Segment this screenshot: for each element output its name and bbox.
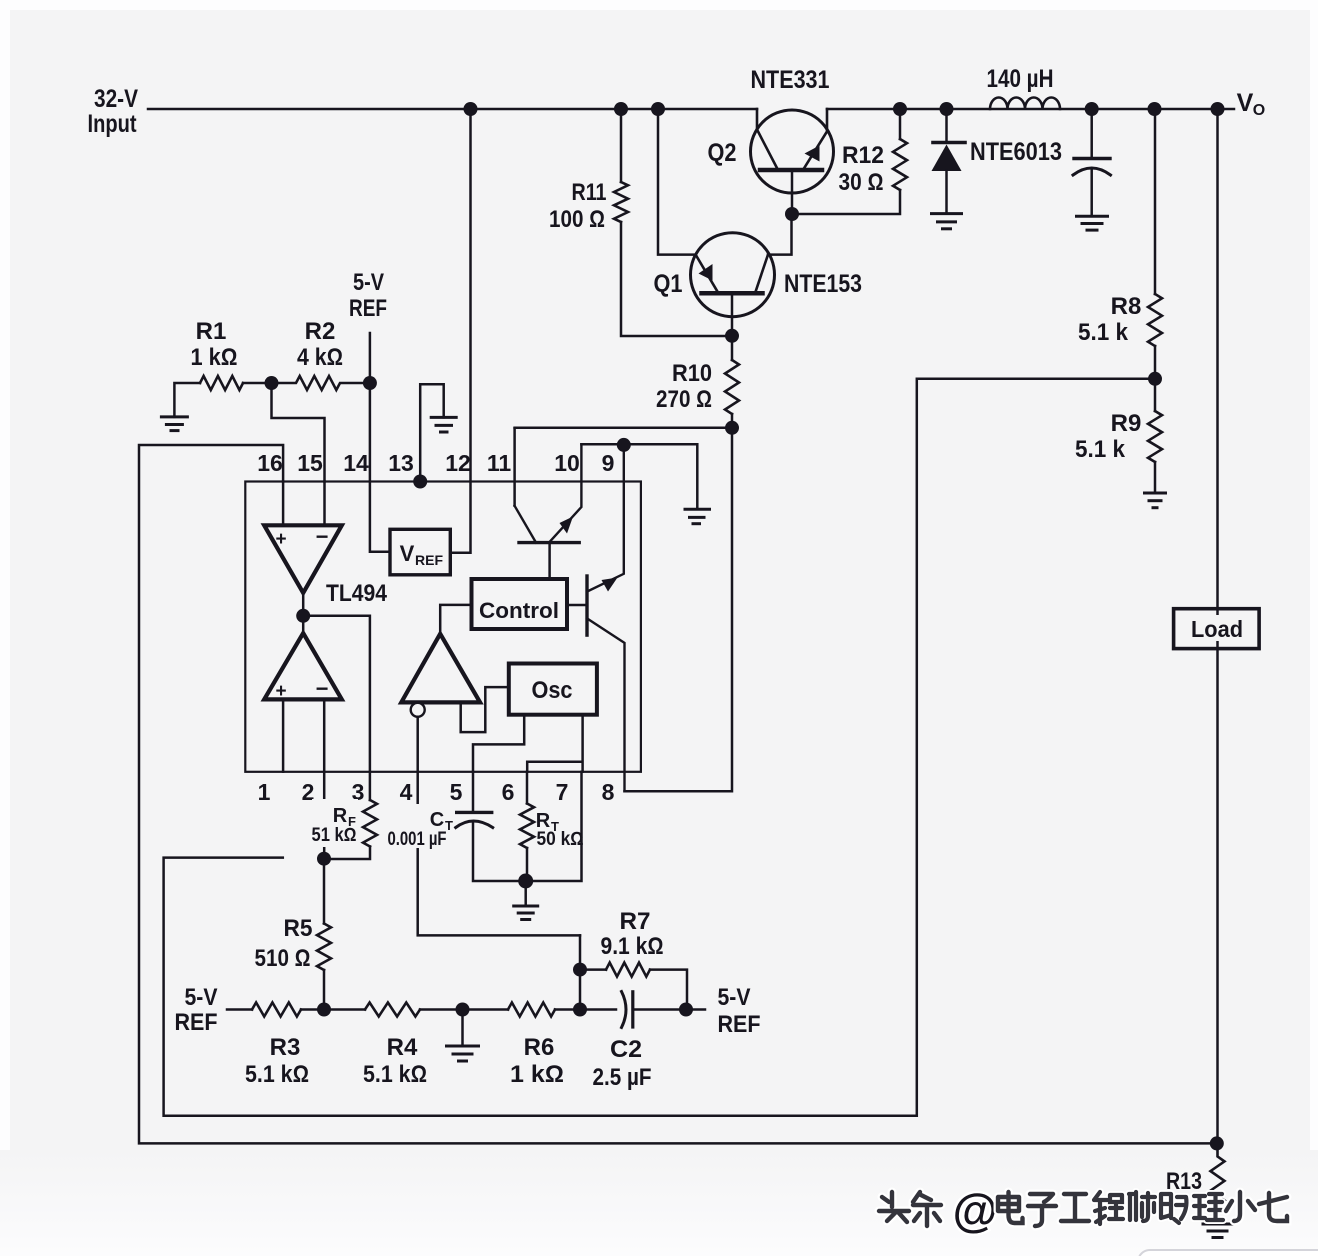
label NTE6013 (970, 138, 1062, 166)
svg-text:5.1 k: 5.1 k (1078, 319, 1129, 346)
pin 12 (445, 450, 471, 476)
node dot R7 left (573, 963, 587, 977)
pin 1 (258, 779, 271, 805)
svg-text:12: 12 (445, 450, 471, 476)
label R4 (363, 1034, 427, 1088)
wire bottom rail from pin 16 left rail to R13 node (139, 445, 1217, 1143)
svg-text:R2: R2 (305, 318, 336, 345)
node dot RT/CT/ground (518, 874, 533, 889)
svg-text:5-V: 5-V (185, 984, 218, 1011)
pin 7 (556, 779, 569, 805)
node dot R3/R4/R5 (317, 1003, 331, 1017)
wire pin 15 to R1/R2 junction (272, 383, 325, 482)
inductor 140 uH (990, 98, 1060, 110)
svg-text:Control: Control (479, 598, 559, 623)
op-amp error amplifier 2 (pins 1/2) (264, 633, 342, 772)
resistor R9 (1148, 379, 1162, 493)
wire Osc to PWM comparator input (461, 687, 509, 732)
pin 14 (343, 450, 369, 476)
op-amp error amplifier 1 (pins 16/15) (264, 482, 342, 593)
wire pin 13 to ground (420, 384, 444, 481)
svg-text:30 Ω: 30 Ω (839, 169, 884, 196)
svg-text:C2: C2 (610, 1036, 642, 1063)
node dot R4/R6/ground (456, 1003, 470, 1017)
pin 2 (302, 779, 315, 805)
svg-text:1: 1 (258, 779, 271, 805)
svg-text:14: 14 (343, 450, 369, 476)
resistor R13 (1211, 1143, 1225, 1224)
transistor internal T1 (pins 11/10) (515, 428, 582, 579)
node dot R8/R9 divider (1148, 372, 1162, 386)
svg-text:5.1 kΩ: 5.1 kΩ (363, 1061, 427, 1088)
resistor R4 (324, 1003, 463, 1017)
node dot Q2 base / R12 / Q1 collector (785, 207, 799, 221)
wire R6/C2 node up to R7 and pin 4 line (579, 935, 582, 1009)
label Q2 (708, 139, 737, 167)
svg-text:R7: R7 (620, 908, 651, 935)
node dot R10 / pin11 / pin8 (725, 421, 739, 435)
svg-text:Q2: Q2 (708, 139, 737, 167)
pin 10 (554, 450, 580, 476)
load box (1174, 609, 1260, 649)
wire 32V input rail (left segment to Q2 collector) (148, 108, 757, 111)
resistor R11 (614, 109, 732, 336)
resistor RT (pin 6) (520, 772, 534, 881)
node dot pin2/RF/R5 (317, 852, 331, 866)
svg-text:270 Ω: 270 Ω (656, 386, 712, 413)
pin 15 (297, 450, 323, 476)
svg-text:510 Ω: 510 Ω (255, 945, 311, 972)
svg-text:V: V (1237, 89, 1254, 117)
svg-text:10: 10 (554, 450, 580, 476)
svg-text:51 kΩ: 51 kΩ (312, 825, 357, 846)
label R13 (1166, 1168, 1202, 1195)
svg-text:REF: REF (349, 295, 387, 322)
block Osc (509, 664, 597, 715)
label Load (1191, 615, 1246, 642)
svg-text:R10: R10 (672, 360, 712, 387)
label comp2 plus (275, 681, 286, 702)
label C2 (593, 1036, 652, 1091)
resistor R1 (174, 376, 271, 417)
svg-text:4 kΩ: 4 kΩ (297, 344, 343, 371)
label R1 (191, 318, 238, 371)
wire 5-V REF to R2/pin14 node (369, 333, 372, 383)
wire Q1 emitter feed from rail (658, 109, 696, 255)
wire Q1 collector to Q2 base node (768, 214, 792, 255)
resistor R5 (317, 859, 331, 1010)
label 140 uH (987, 65, 1054, 93)
label R9 (1075, 410, 1141, 463)
label RF (312, 799, 359, 847)
ground (pin 13) (431, 417, 456, 432)
node dot rail/Q1 feed (651, 102, 665, 116)
op-amp PWM comparator with inverting bubble to pin 4 (401, 634, 580, 936)
label Osc (532, 677, 573, 704)
pin 5 (450, 779, 463, 805)
svg-text:@: @ (953, 1184, 998, 1236)
svg-text:R5: R5 (284, 915, 313, 942)
label CT (388, 804, 454, 850)
svg-text:1 kΩ: 1 kΩ (191, 344, 238, 371)
ground (R9) (1145, 493, 1166, 508)
wire 32V to pin 12 (Vcc) (450, 109, 470, 553)
decorative corner box bottom right (1138, 1250, 1318, 1256)
pin 13 (388, 450, 414, 476)
ground (diode) (932, 214, 962, 229)
label comp2 minus (316, 676, 329, 701)
node 5-V REF (bottom right) (718, 984, 761, 1038)
label R5 (255, 915, 313, 972)
label R7 (601, 908, 664, 960)
IC TL494 box (245, 482, 641, 772)
node dot pin13 on box edge (413, 475, 427, 489)
svg-text:R1: R1 (196, 318, 227, 345)
node dot rail/diode (940, 102, 954, 116)
resistor R3 (227, 1003, 324, 1017)
svg-text:50 kΩ: 50 kΩ (537, 829, 584, 850)
svg-text:R12: R12 (842, 142, 884, 169)
svg-text:REF: REF (175, 1009, 218, 1036)
ground (R13) (1203, 1224, 1232, 1238)
svg-text:O: O (1253, 102, 1265, 119)
svg-text:NTE6013: NTE6013 (970, 138, 1062, 166)
svg-text:+: + (275, 529, 286, 550)
node 32-V Input label (88, 85, 139, 138)
svg-text:R6: R6 (524, 1034, 555, 1061)
node dot rail/pin12 (464, 102, 478, 116)
wire pins 9/10 emitters to ground (581, 444, 697, 509)
pin 16 (257, 450, 283, 476)
label R8 (1078, 293, 1141, 346)
resistor R7 (580, 963, 687, 1010)
svg-text:TL494: TL494 (326, 580, 388, 607)
label RT (536, 810, 584, 850)
label Control (479, 598, 559, 623)
svg-text:NTE153: NTE153 (784, 270, 862, 298)
svg-text:Load: Load (1191, 616, 1243, 642)
wire error amp outputs junction to pin 3 (302, 593, 305, 633)
resistor R8 (1148, 109, 1162, 379)
label R2 (297, 318, 343, 371)
ground (R4/R6 node) (447, 1010, 479, 1062)
svg-text:Q1: Q1 (654, 270, 683, 298)
svg-text:7: 7 (556, 779, 569, 805)
label comp1 plus (275, 529, 286, 550)
svg-text:5.1 k: 5.1 k (1075, 436, 1126, 463)
block VREF (390, 529, 450, 575)
svg-text:5.1 kΩ: 5.1 kΩ (245, 1061, 309, 1088)
wire 32V output rail (Q2 emitter to Vo) (827, 108, 1234, 111)
transistor Q1 (NTE153) (691, 233, 775, 336)
svg-text:5-V: 5-V (353, 269, 384, 296)
label VREF (400, 541, 444, 568)
pin 4 (400, 779, 413, 805)
wire PWM comparator output to Control (440, 605, 471, 634)
pin 3 (352, 779, 365, 805)
svg-text:13: 13 (388, 450, 414, 476)
label Q1 (654, 270, 683, 298)
svg-text:Osc: Osc (532, 677, 573, 704)
resistor R10 (725, 336, 739, 428)
svg-text:4: 4 (400, 779, 413, 805)
svg-text:1 kΩ: 1 kΩ (510, 1061, 564, 1088)
svg-text:R9: R9 (1111, 410, 1142, 437)
svg-text:R4: R4 (387, 1034, 418, 1061)
svg-text:R3: R3 (270, 1034, 301, 1061)
svg-text:140 µH: 140 µH (987, 65, 1054, 93)
label R3 (245, 1034, 309, 1088)
capacitor CT (pin 5) (456, 772, 582, 881)
svg-text:−: − (316, 524, 329, 549)
svg-text:−: − (316, 676, 329, 701)
label NTE153 (784, 270, 862, 298)
svg-text:R8: R8 (1111, 293, 1142, 320)
svg-text:9: 9 (602, 450, 615, 476)
transistor internal T2 (pins 9/8) (567, 445, 625, 791)
svg-text:5-V: 5-V (718, 984, 751, 1011)
svg-text:11: 11 (487, 450, 512, 476)
resistor R12 (792, 109, 907, 214)
wire Osc to pin 5 (473, 715, 524, 772)
node dot rail/output cap (1085, 102, 1099, 116)
svg-text:R11: R11 (572, 179, 607, 206)
ground (internal emitters) (685, 509, 710, 524)
svg-text:V: V (400, 541, 415, 566)
node dot load/R13/bottom rail (1210, 1136, 1224, 1150)
wire pin 11/pin 8 collectors to R10 (515, 427, 732, 430)
node 5-V REF (bottom left) (175, 984, 218, 1036)
svg-text:R: R (333, 805, 348, 827)
resistor RF (pin 3 feedback) (324, 800, 377, 859)
resistor R2 (272, 376, 370, 390)
svg-text:15: 15 (297, 450, 323, 476)
label TL494 (326, 580, 388, 607)
capacitor output filter (1073, 109, 1111, 216)
pin 11 (487, 450, 512, 476)
node dot C2/R7 right (679, 1003, 693, 1017)
node dot R6/C2/R7riser (573, 1003, 587, 1017)
svg-text:32-V: 32-V (94, 85, 138, 113)
transistor Q2 (NTE331) (751, 109, 834, 214)
svg-text:NTE331: NTE331 (751, 66, 830, 94)
pin 9 (602, 450, 615, 476)
node dot pin9 / emitter ground line (617, 438, 631, 452)
diode NTE6013 (932, 109, 966, 214)
node Vo label (1237, 89, 1266, 119)
wire output line through Load to R13 node (1216, 109, 1219, 1143)
ground (R1) (161, 417, 187, 431)
node dot R1/R2 junction (265, 376, 279, 390)
svg-text:8: 8 (602, 779, 615, 805)
node dot Q1 base / R11 / R10 (725, 329, 739, 343)
node dot rail/R8 (1148, 102, 1162, 116)
svg-text:5: 5 (450, 779, 463, 805)
label R6 (510, 1034, 564, 1088)
node 5-V REF (top) (349, 269, 387, 322)
svg-text:C: C (430, 809, 444, 831)
svg-text:REF: REF (718, 1011, 761, 1038)
node dot error amp outputs (296, 609, 310, 623)
svg-text:9.1 kΩ: 9.1 kΩ (601, 933, 664, 960)
node dot rail/load line (1211, 102, 1225, 116)
wire Osc to pins 6 and 7 (527, 715, 582, 772)
svg-text:16: 16 (257, 450, 283, 476)
label R10 (656, 360, 712, 413)
ground (RT/CT node) (514, 881, 538, 920)
svg-text:Input: Input (88, 110, 138, 138)
wire pin 14 down into Vref block (370, 383, 390, 552)
label R11 (549, 179, 607, 233)
svg-text:100 Ω: 100 Ω (549, 206, 605, 233)
label NTE331 (751, 66, 830, 94)
svg-text:+: + (275, 681, 286, 702)
ground (output cap) (1077, 216, 1108, 230)
svg-text:REF: REF (415, 552, 443, 568)
node dot rail/R12 (893, 102, 907, 116)
svg-text:6: 6 (502, 779, 515, 805)
svg-text:0.001 µF: 0.001 µF (388, 829, 447, 850)
wire feedback from R8/R9 node to pin 1 rail (164, 379, 1155, 1116)
block Control (472, 579, 568, 629)
pin 6 (502, 779, 515, 805)
node dot rail/R11 (614, 102, 628, 116)
watermark 头条 @电子工程师助理小七 (879, 1184, 1287, 1236)
svg-text:2.5 µF: 2.5 µF (593, 1064, 652, 1091)
capacitor C2 (622, 992, 706, 1028)
pin 8 (602, 779, 615, 805)
resistor R6 (463, 1003, 617, 1017)
wire pin 2 to RF/R5 node (323, 772, 326, 859)
label R12 (839, 142, 885, 196)
label comp1 minus (316, 524, 329, 549)
node dot R2/5V-REF/pin14 (363, 376, 377, 390)
